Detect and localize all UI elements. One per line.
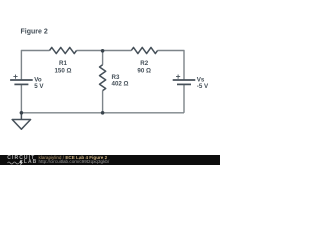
svg-text:Figure 2: Figure 2: [21, 29, 48, 36]
svg-text:90 Ω: 90 Ω: [137, 67, 151, 74]
svg-text:5 V: 5 V: [34, 83, 44, 90]
svg-text:R1: R1: [59, 60, 67, 67]
svg-text:-5 V: -5 V: [197, 83, 209, 90]
svg-text:R2: R2: [140, 60, 148, 67]
svg-text:402 Ω: 402 Ω: [112, 81, 129, 88]
svg-text:150 Ω: 150 Ω: [54, 67, 71, 74]
